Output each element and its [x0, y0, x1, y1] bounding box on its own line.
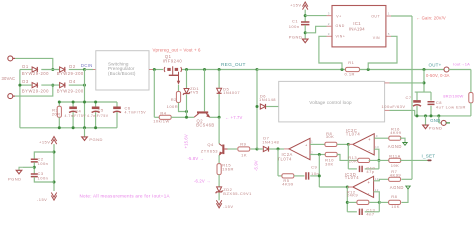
svg-text:C1: C1 [292, 18, 298, 23]
svg-text:-6.2V →: -6.2V → [194, 179, 210, 184]
svg-text:PGND: PGND [429, 125, 443, 130]
svg-text:3: 3 [328, 11, 330, 15]
svg-text:100n: 100n [38, 176, 49, 181]
wire R8 to IC2C output tip node [337, 143, 348, 145]
load resistor 8R2/100W [469, 93, 473, 103]
svg-text:20R: 20R [52, 112, 61, 117]
connector GND output [438, 116, 440, 123]
resistor R4 10k/1W [154, 116, 159, 118]
wire R4 to ZD1 bottom node [171, 116, 186, 118]
wire DC rail down to filter caps [84, 70, 86, 128]
svg-text:10K: 10K [391, 204, 400, 209]
resistor R7 4K99 [389, 177, 401, 181]
power symbol -15V aux [51, 193, 56, 201]
wire R10 right elbow down to R13 row [337, 155, 359, 161]
ground AGND at R8b [401, 189, 408, 203]
diode D4 [60, 83, 65, 88]
wire IC2C output node down to C10 [347, 144, 349, 169]
svg-text:BYW29-200: BYW29-200 [22, 89, 49, 94]
svg-text:30K: 30K [325, 162, 334, 167]
wire IC2A lower input to R10 row [310, 154, 325, 156]
wire Q1 drain to REG_OUT rail [182, 69, 257, 71]
wire cap top rail [415, 91, 431, 93]
svg-text:1: 1 [388, 11, 390, 15]
svg-text:C7: C7 [406, 95, 412, 100]
svg-text:R2: R2 [171, 97, 177, 102]
wire from voltage loop box lower to bottom rail [385, 109, 390, 111]
wire C10 right end up to inverting input vertical [378, 160, 380, 169]
svg-text:R1: R1 [348, 60, 354, 65]
resistor R2 100R [176, 92, 180, 103]
wire IC2A plus feedback via R5 C9 [277, 147, 280, 150]
capacitor C6 4.7mF/75V [116, 102, 118, 107]
resistor R5 4K99 [282, 174, 294, 178]
svg-text:3: 3 [328, 32, 330, 36]
resistor R9 1K [238, 147, 250, 151]
svg-text:BZX55-C9V1: BZX55-C9V1 [223, 191, 252, 196]
svg-text:-5.9V: -5.9V [253, 160, 258, 171]
svg-text:D3: D3 [22, 79, 29, 84]
op-amp IC2A TL074 (output at left tip) [284, 148, 289, 150]
resistor R11A 19K [389, 158, 401, 162]
node output cap drop [423, 68, 426, 71]
wire VIN sense [368, 36, 397, 69]
wire IC2D lower input elbow [374, 192, 380, 203]
svg-text:0-50V, 0-3A: 0-50V, 0-3A [426, 73, 450, 78]
wire IC2D upper input elbow to R7 [374, 179, 390, 181]
svg-text:OUT: OUT [371, 15, 380, 19]
svg-text:R8: R8 [391, 194, 397, 199]
power symbol PGND under cap bank [84, 128, 86, 137]
diode D3 [32, 83, 37, 88]
wire to C2 branch [34, 152, 54, 159]
svg-text:OUT+: OUT+ [429, 63, 442, 68]
svg-text:Q4: Q4 [207, 142, 214, 147]
svg-text:IRF9240: IRF9240 [163, 59, 183, 64]
svg-text:Note: All measurements are for: Note: All measurements are for Iout=1A [80, 194, 170, 199]
wire IC2D output row [319, 186, 347, 188]
wire R12 to lower input node [369, 201, 379, 203]
zener ZD2 BZX55-C9V1 [217, 187, 222, 192]
wire Q4 emitter to R15 [218, 155, 220, 164]
svg-text:C4: C4 [75, 108, 81, 113]
wire AC1 from top connector to bridge D1-D2 junction [15, 58, 53, 69]
wire IC2C lower input elbow down to R13 row [374, 149, 379, 160]
svg-text:R9: R9 [240, 141, 246, 146]
svg-text:30K: 30K [326, 134, 335, 139]
svg-text:C5: C5 [98, 107, 104, 112]
diode D5 1N4007 [218, 68, 221, 71]
svg-text:-15V: -15V [37, 197, 47, 202]
svg-text:4K99: 4K99 [282, 182, 294, 187]
wire emitter-collector row y116.8 [187, 116, 195, 118]
svg-text:AGND: AGND [388, 144, 402, 149]
capacitor C13 4n7 [347, 211, 357, 213]
svg-text:-: - [306, 154, 308, 158]
svg-text:D1: D1 [22, 64, 29, 69]
svg-text:-5.8V →: -5.8V → [188, 156, 204, 161]
svg-text:24K9: 24K9 [347, 193, 359, 198]
svg-text:1N4148: 1N4148 [262, 139, 279, 144]
resistor R16 4K99 [389, 136, 401, 140]
svg-text:V+: V+ [336, 15, 341, 19]
svg-text:R4: R4 [160, 111, 166, 116]
svg-text:TL074: TL074 [278, 156, 293, 161]
ground AGND at R16 [400, 138, 405, 142]
svg-text:VIN: VIN [373, 36, 380, 40]
svg-text:100n: 100n [38, 161, 49, 166]
pin stubs IC1 left [327, 16, 333, 27]
svg-text:Voltage control loop: Voltage control loop [309, 100, 352, 105]
wire preregulator output to Q1 [149, 69, 154, 71]
svg-text:9: 9 [376, 134, 378, 138]
svg-text:TL074: TL074 [345, 175, 360, 180]
AC input connector J1 bottom [8, 94, 13, 99]
svg-text:2: 2 [328, 22, 330, 26]
wire feedback vertical down to IC2D output row [318, 155, 320, 188]
wire IC2D output node down to R12 and C13 [346, 187, 348, 212]
zener ZD1 7V5 [185, 68, 188, 71]
wire bridge top row [20, 69, 32, 71]
block Voltage control loop [279, 81, 385, 122]
wire AC2 from bottom connector to bridge D3-D4 junction [15, 85, 53, 96]
svg-text:IC1: IC1 [353, 21, 361, 26]
svg-text:5: 5 [388, 32, 390, 36]
svg-text:4u7 Low ESR: 4u7 Low ESR [436, 105, 466, 110]
transistor Q4 ZTX653 [222, 145, 224, 155]
power symbol PGND under C1 [302, 39, 308, 43]
capacitor C1 100n [301, 22, 309, 25]
diode D7 1N4148 [257, 148, 263, 150]
svg-text:D2: D2 [69, 64, 76, 69]
wire DCIN into preregulator box [85, 69, 94, 71]
resistor R13 10K [358, 158, 370, 162]
wire Q4 base to R9 [228, 148, 238, 150]
svg-text:AGND: AGND [390, 185, 404, 190]
node DC+ bottom [83, 84, 86, 87]
svg-text:+: + [305, 143, 308, 147]
capacitor C3 100n [31, 174, 38, 177]
shunt resistor R1 0.1R on output rail [257, 69, 346, 71]
node main rail at cap bank [83, 101, 86, 104]
svg-text:196R: 196R [222, 167, 234, 172]
svg-text:BC546B: BC546B [196, 123, 215, 128]
wire from voltage loop box to output node [385, 82, 390, 84]
svg-text:1K: 1K [241, 153, 247, 158]
wire R2 bottom elbow to ZD1 column [179, 103, 187, 112]
svg-text:← +7.7V: ← +7.7V [225, 115, 243, 120]
wire to PGND aux [23, 166, 34, 168]
wire rail to D6 vertical [256, 68, 259, 71]
svg-text:4.7mF/75V: 4.7mF/75V [65, 114, 87, 118]
svg-text:INA194: INA194 [349, 26, 365, 31]
resistor R8 30K [325, 142, 337, 146]
wire left rail of bridge down to bottom rail [19, 70, 21, 128]
svg-text:4K99: 4K99 [390, 130, 402, 135]
connector OUT+ output [444, 67, 449, 72]
op-amp IC2D TL074 (output at left tip) [353, 176, 374, 197]
resistor R10 30K [325, 152, 337, 156]
svg-text:10k/1W: 10k/1W [153, 119, 170, 124]
node DC+ top [83, 68, 86, 71]
svg-text:+15.6V: +15.6V [184, 134, 189, 148]
svg-text:30VAC: 30VAC [2, 76, 16, 81]
op-amp IC2C TL074 (output at left tip) [353, 134, 374, 155]
power symbol PGND aux [19, 167, 23, 170]
svg-text:DCIN: DCIN [81, 63, 93, 68]
svg-text:8R2/100W: 8R2/100W [443, 94, 463, 99]
capacitor C2 100n [31, 159, 38, 162]
wire C13 up to lower input node [378, 202, 380, 211]
svg-text:VIN+: VIN+ [336, 34, 346, 38]
svg-text:Vprereg_out = Vout + 6: Vprereg_out = Vout + 6 [153, 47, 201, 52]
Q1 gate lead with arrow down [178, 72, 180, 83]
svg-text:+15V: +15V [290, 3, 301, 8]
svg-text:100R: 100R [167, 104, 179, 109]
node AC1 junction [51, 68, 54, 71]
diode D1 [32, 67, 37, 72]
svg-text:10K: 10K [349, 158, 358, 163]
wire R15 to ZD2 [218, 175, 220, 187]
power symbol -15V below ZD2 [216, 200, 221, 208]
node AC2 junction [51, 84, 54, 87]
resistor R3 20R bleeder [58, 102, 60, 106]
svg-text:1: 1 [311, 139, 313, 143]
svg-text:(Buck/Boost): (Buck/Boost) [108, 71, 136, 76]
wire filter cap bottom rail [20, 127, 117, 129]
wire V+ pin [305, 15, 326, 17]
svg-text:100n: 100n [289, 24, 300, 29]
svg-text:4.7mF/75V: 4.7mF/75V [87, 114, 109, 118]
wire IC2A upper input to R8 row [310, 143, 325, 145]
capacitor C10 47p [348, 168, 357, 170]
transistor Q2 BC546B [203, 68, 206, 71]
resistor R12 24K9 [347, 201, 357, 203]
capacitor C8 4u7 Low ESR [430, 92, 432, 100]
svg-text:C9: C9 [311, 165, 317, 170]
svg-text:BYW29-200: BYW29-200 [57, 71, 84, 76]
svg-text:ZTX653: ZTX653 [201, 148, 219, 153]
wire GND pin of IC1 [305, 26, 326, 33]
svg-text:47p: 47p [366, 169, 374, 174]
svg-text:100uF/63V: 100uF/63V [382, 104, 406, 109]
svg-text:4.7mF/75V: 4.7mF/75V [125, 111, 147, 115]
svg-text:1N4007: 1N4007 [223, 90, 240, 95]
block Switching Preregulator (Buck/Boost) [96, 51, 149, 90]
wire VIN+ sense [319, 36, 342, 69]
svg-text:+: + [368, 137, 371, 142]
svg-text:+15V: +15V [39, 140, 50, 145]
svg-text:TL074: TL074 [346, 131, 361, 136]
svg-text:R11A: R11A [389, 154, 401, 159]
wire R13 to R11A [369, 159, 390, 161]
svg-text:GND: GND [336, 24, 345, 28]
svg-text:19K: 19K [391, 163, 400, 168]
diode D6 1N4148 [260, 104, 265, 109]
AC input connector J1 top [8, 56, 13, 61]
svg-text:BYW29-200: BYW29-200 [57, 89, 84, 94]
wire C3 to -15V rail [34, 177, 54, 182]
wire gate node to R2 [178, 85, 180, 92]
svg-text:-15V: -15V [223, 204, 233, 209]
wire I_SET stub [400, 159, 428, 161]
svg-text:PGND: PGND [8, 177, 22, 182]
capacitor C4 4.7mF/75V [72, 102, 74, 107]
capacitor C5 4.7mF/75V [95, 102, 97, 107]
svg-text:4n7: 4n7 [366, 211, 374, 216]
wire IC2C upper input to R16 [374, 137, 390, 139]
svg-text:-: - [369, 148, 371, 153]
svg-text:7V5: 7V5 [190, 90, 199, 95]
svg-text:BYW29-200: BYW29-200 [22, 71, 49, 76]
wire OUT+ to load resistor [449, 69, 471, 71]
wire Q4 collector from node [218, 117, 220, 143]
pin stubs IC1 right [386, 15, 391, 17]
svg-text:4K99: 4K99 [390, 173, 402, 178]
power symbol PGND output [425, 116, 427, 125]
svg-text:+: + [368, 180, 371, 185]
wire INA output down [391, 15, 412, 17]
svg-text:10: 10 [375, 145, 379, 149]
power +15V for IC1 [303, 2, 308, 10]
wire bridge bottom row [20, 84, 32, 86]
svg-text:GND: GND [430, 118, 440, 123]
wire output rail drop to caps [423, 70, 425, 93]
wire rail down to R4 [153, 70, 155, 118]
wire bottom rail output section [415, 115, 471, 117]
resistor R15 196R [217, 164, 221, 175]
svg-text:D4: D4 [69, 79, 76, 84]
resistor R8b 10K lower [379, 201, 390, 203]
svg-text:← Gain: 20V/V: ← Gain: 20V/V [416, 16, 446, 21]
svg-text:PGND: PGND [289, 35, 303, 40]
svg-text:1N4148: 1N4148 [259, 97, 276, 102]
svg-text:REG_OUT: REG_OUT [221, 62, 246, 68]
svg-text:I_SET: I_SET [422, 154, 436, 159]
capacitor C7 100uF/63V [416, 92, 418, 100]
capacitor C9 10n [294, 175, 304, 177]
wire R7 to INA output vertical [401, 178, 412, 180]
svg-text:Iout→1A: Iout→1A [453, 61, 470, 66]
IC1 INA194 current sense amp [332, 6, 386, 47]
svg-text:-: - [368, 191, 370, 196]
wire R9 to D6/D7 node [251, 148, 258, 150]
diode D2 [60, 67, 65, 72]
power +15V aux rail [51, 137, 56, 145]
svg-text:2: 2 [311, 150, 313, 154]
wire filter cap top rail [59, 101, 117, 103]
svg-text:PGND: PGND [89, 137, 103, 142]
svg-text:0.1R: 0.1R [345, 71, 355, 76]
